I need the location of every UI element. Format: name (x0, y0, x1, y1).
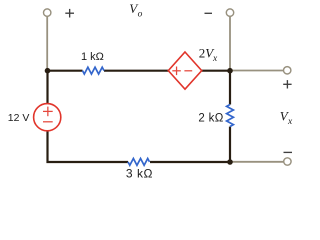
svg-text:x: x (212, 54, 218, 64)
svg-text:2 kΩ: 2 kΩ (198, 112, 223, 124)
svg-text:1 kΩ: 1 kΩ (81, 51, 104, 63)
svg-text:12 V: 12 V (8, 112, 30, 124)
svg-text:3 kΩ: 3 kΩ (126, 166, 153, 180)
svg-text:x: x (287, 117, 293, 127)
svg-text:o: o (138, 10, 143, 20)
